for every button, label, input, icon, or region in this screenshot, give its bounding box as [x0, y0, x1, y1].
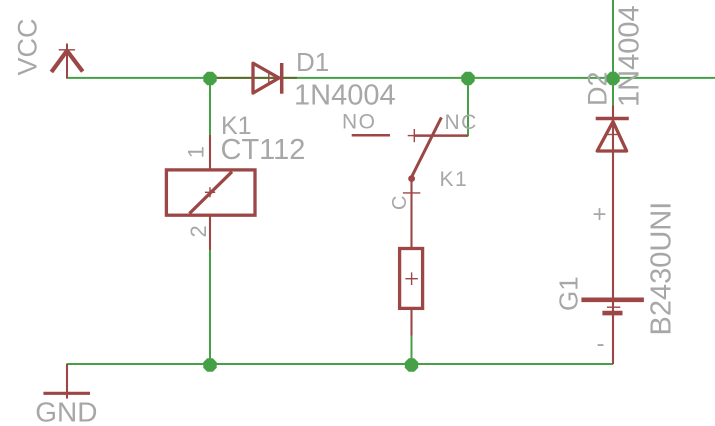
- wire from top rail down to relay coil pin 1: [209, 78, 211, 136]
- lever pivot dot: [408, 175, 415, 182]
- svg-text:D2: D2: [583, 71, 613, 106]
- wire overlap of D1 pins on net (dark blend): [216, 77, 297, 79]
- svg-text:2: 2: [186, 225, 211, 237]
- junction top rail / D2: [606, 72, 619, 85]
- diode D1: [253, 63, 282, 94]
- resistor body: [400, 249, 423, 336]
- common pin wire: [410, 179, 412, 250]
- switch lever: [411, 117, 442, 178]
- svg-text:NC: NC: [445, 111, 478, 134]
- svg-text:VCC: VCC: [12, 18, 42, 75]
- coil body: [166, 170, 255, 215]
- junction top rail / coil: [203, 72, 216, 85]
- wire VCC top rail: [67, 77, 715, 79]
- coil origin cross: [205, 191, 215, 193]
- junction top rail / switch NC: [461, 72, 474, 85]
- supply symbol VCC: [51, 44, 82, 79]
- svg-text:+: +: [593, 201, 607, 228]
- junction bottom rail / resistor: [405, 358, 418, 371]
- switch origin cross: [403, 192, 420, 194]
- svg-text:1: 1: [183, 146, 208, 158]
- resistor origin cross: [405, 278, 418, 280]
- relay contact switch K1: [352, 117, 468, 250]
- D2 pin-end cross: [607, 134, 620, 136]
- svg-text:-: -: [597, 331, 605, 358]
- svg-text:1N4004: 1N4004: [614, 5, 646, 107]
- svg-text:CT112: CT112: [221, 134, 306, 166]
- svg-text:C: C: [389, 196, 411, 210]
- pin NO stub: [352, 134, 390, 137]
- svg-text:B2430UNI: B2430UNI: [646, 202, 678, 336]
- wire relay coil pin 2 down to bottom rail: [209, 250, 211, 365]
- svg-text:GND: GND: [35, 396, 97, 426]
- battery G1: [581, 300, 644, 313]
- NC pin-end cross: [408, 135, 421, 137]
- wire D2 anode to battery and bottom rail: [612, 151, 614, 364]
- svg-text:1N4004: 1N4004: [294, 79, 396, 111]
- resistor bottom stub: [410, 308, 412, 335]
- diode D2: [596, 106, 629, 365]
- svg-text:NO: NO: [342, 111, 377, 134]
- wire resistor bottom to bottom rail: [411, 335, 413, 365]
- ground symbol GND: [43, 364, 90, 399]
- svg-text:G1: G1: [554, 276, 584, 311]
- wire from top rail down to switch NC pin: [467, 78, 469, 136]
- junction bottom rail / coil: [203, 358, 216, 371]
- pin 1 stub: [209, 135, 211, 171]
- svg-text:K1: K1: [440, 168, 469, 191]
- pin 2 stub: [209, 215, 211, 250]
- svg-text:D1: D1: [296, 47, 329, 77]
- relay coil K1: [166, 135, 255, 250]
- wire top right vertical to D2 cathode: [612, 0, 614, 107]
- pin NC stub: [414, 134, 468, 137]
- battery origin cross: [607, 306, 620, 308]
- wire GND bottom rail: [67, 363, 614, 365]
